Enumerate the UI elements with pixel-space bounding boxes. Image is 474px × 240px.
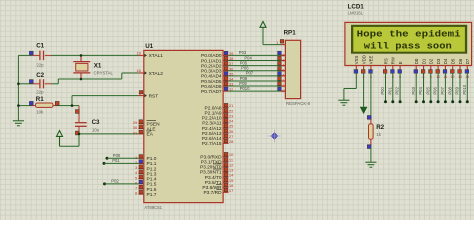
- net label P05 (vertical): [425, 86, 430, 94]
- pin P2.1/A9 (22): [205, 108, 235, 116]
- ground (left rail): [13, 121, 24, 126]
- power terminal (VDD, arrow down): [361, 107, 367, 113]
- svg-text:P07: P07: [440, 86, 445, 94]
- svg-text:P2.1/A9: P2.1/A9: [205, 111, 222, 117]
- svg-text:P3.3/INT1: P3.3/INT1: [200, 170, 222, 176]
- capacitor C3: [75, 106, 100, 135]
- svg-text:2: 2: [282, 53, 284, 57]
- pin P3.7/RD (17): [203, 188, 234, 196]
- svg-text:P04: P04: [418, 86, 423, 94]
- wire net P07 (LCD D4): [444, 73, 447, 103]
- svg-text:RW: RW: [391, 56, 396, 64]
- pin LCD RS (4): [383, 58, 388, 79]
- wire net P03 (P0.0 to RP1): [229, 54, 286, 56]
- wire net P03 (LCD D0): [415, 73, 418, 103]
- pin P0.3/AD3 (36): [201, 66, 234, 74]
- LCD LCD1 LM016L body: [345, 3, 472, 65]
- svg-text:22p: 22p: [36, 90, 44, 95]
- svg-text:D3: D3: [436, 58, 441, 64]
- pin P2.6/A14 (27): [202, 134, 234, 142]
- pin LCD D0 (7): [414, 58, 419, 79]
- pin RP1-3: [278, 56, 286, 62]
- junction node (rail-R1): [17, 104, 20, 107]
- svg-text:17: 17: [229, 188, 234, 193]
- resistor R1: [29, 96, 59, 114]
- pin EA (31): [133, 130, 154, 138]
- svg-text:19: 19: [136, 51, 141, 56]
- pin P0.6/AD6 (33): [201, 82, 234, 90]
- pin P2.3/A11 (24): [202, 119, 234, 127]
- svg-text:P09: P09: [455, 86, 460, 94]
- pin RP1-1: [276, 40, 284, 45]
- svg-text:R2: R2: [376, 124, 384, 131]
- wire VEE to R2: [370, 73, 372, 117]
- svg-text:P0.6/AD6: P0.6/AD6: [201, 84, 222, 90]
- capacitor C1: [29, 43, 44, 68]
- svg-text:28: 28: [229, 139, 234, 144]
- svg-text:P0.4/AD4: P0.4/AD4: [201, 74, 222, 80]
- net label P09 (vertical): [455, 86, 460, 94]
- svg-text:P1.4: P1.4: [147, 177, 157, 183]
- pin P2.5/A13 (26): [202, 129, 234, 137]
- wire net P02 (LCD E): [399, 73, 402, 103]
- net label P00: [113, 153, 121, 158]
- svg-text:EA: EA: [147, 132, 154, 138]
- pin RP1-6: [278, 72, 286, 78]
- wire net P09 (P0.6 to RP1): [229, 85, 286, 87]
- svg-text:1: 1: [276, 41, 278, 45]
- capacitor C2: [29, 72, 44, 95]
- pin P3.0/RXD (10): [200, 152, 234, 160]
- pin RP1-4: [278, 61, 286, 67]
- LCD screen: [352, 25, 467, 53]
- svg-text:PSEN: PSEN: [147, 121, 161, 127]
- ground rail wire (left): [17, 55, 19, 120]
- svg-text:XTAL1: XTAL1: [149, 53, 164, 59]
- svg-text:RESPACK-8: RESPACK-8: [286, 101, 311, 106]
- pin P3.1/TXD (11): [201, 157, 234, 165]
- pin LCD VEE (3): [369, 55, 374, 78]
- svg-text:P3.6/WR: P3.6/WR: [202, 185, 222, 191]
- wire VSS to ground: [344, 73, 356, 100]
- svg-text:P3.2/INT0: P3.2/INT0: [200, 165, 222, 171]
- svg-text:P3.0/RXD: P3.0/RXD: [200, 154, 222, 160]
- net label P01: [112, 158, 120, 163]
- svg-text:P2.5/A13: P2.5/A13: [202, 131, 222, 137]
- svg-text:P3.4/T0: P3.4/T0: [205, 175, 222, 181]
- svg-text:P08: P08: [447, 86, 452, 94]
- pin P2.4/A12 (25): [202, 124, 234, 132]
- wire net P010 (LCD D7): [466, 73, 469, 103]
- svg-text:P0.3/AD3: P0.3/AD3: [201, 69, 222, 75]
- svg-text:VSS: VSS: [354, 55, 359, 64]
- svg-text:VEE: VEE: [369, 55, 374, 64]
- wire R2 to ground: [370, 147, 372, 163]
- svg-text:D6: D6: [458, 58, 463, 64]
- microcontroller U1 AT89C51 body: [144, 43, 223, 210]
- power terminal VCC (top): [260, 22, 266, 28]
- svg-text:P01: P01: [387, 86, 392, 94]
- pin LCD RW (5): [391, 56, 396, 79]
- pin LCD D5 (12): [450, 58, 455, 79]
- svg-text:AT89C51: AT89C51: [144, 205, 162, 210]
- pin P1.6 (7): [135, 185, 157, 193]
- wire net P08 (LCD D5): [451, 73, 454, 103]
- net label P00 (vertical): [380, 86, 385, 94]
- pin LCD VSS (1): [354, 55, 359, 78]
- wire net P010 (P0.7 to RP1): [229, 90, 286, 92]
- wire net P04 (P0.1 to RP1): [229, 60, 286, 62]
- svg-text:X1: X1: [94, 63, 102, 70]
- pin P2.2/A10 (23): [202, 113, 234, 121]
- net label P03: [239, 50, 247, 55]
- svg-text:LM016L: LM016L: [348, 11, 364, 16]
- pin P3.6/WR (16): [202, 183, 234, 191]
- svg-text:10u: 10u: [92, 128, 100, 133]
- node crystal-bottom: [80, 78, 83, 81]
- svg-text:10k: 10k: [36, 109, 44, 114]
- svg-text:P03: P03: [411, 86, 416, 94]
- ground (LCD VSS): [338, 100, 349, 105]
- net label P04: [244, 55, 252, 60]
- svg-text:P06: P06: [433, 86, 438, 94]
- pin LCD E (6): [398, 61, 403, 79]
- wire C2 to XTAL2 net: [18, 73, 138, 84]
- svg-text:E: E: [398, 61, 403, 64]
- pin ALE (30): [133, 125, 156, 132]
- net label P07: [246, 71, 254, 76]
- wire net P05 (P0.2 to RP1): [229, 65, 286, 67]
- ground (R2): [365, 162, 376, 167]
- pin P2.0/A8 (21): [205, 103, 235, 111]
- wire net P07 (P0.4 to RP1): [229, 75, 286, 77]
- net label P09: [239, 81, 247, 86]
- svg-text:RS: RS: [383, 58, 388, 64]
- wire EA net / VCC feed: [60, 134, 139, 146]
- pin PSEN (29): [133, 120, 160, 128]
- wire net P05 (LCD D2): [429, 73, 432, 103]
- svg-text:P1.0: P1.0: [147, 156, 157, 162]
- pin RP1-5: [278, 67, 286, 73]
- svg-text:XTAL2: XTAL2: [149, 71, 164, 77]
- svg-text:D0: D0: [414, 58, 419, 64]
- svg-text:P05: P05: [425, 86, 430, 94]
- pin P0.2/AD2 (37): [201, 61, 234, 69]
- pin LCD D6 (13): [458, 58, 463, 79]
- wire net P00 (LCD RS): [384, 73, 387, 103]
- net label P010 (vertical): [462, 84, 467, 94]
- svg-text:P1.2: P1.2: [147, 166, 157, 172]
- svg-text:R1: R1: [36, 96, 44, 103]
- svg-text:P0.1/AD1: P0.1/AD1: [201, 58, 222, 64]
- net label P02 (vertical): [395, 86, 400, 94]
- svg-text:P01: P01: [112, 158, 120, 163]
- svg-text:ALE: ALE: [147, 126, 156, 132]
- junction node (rail-C2): [17, 83, 20, 86]
- pin LCD VDD (2): [361, 55, 366, 79]
- wire VDD to power: [363, 73, 365, 107]
- svg-text:RST: RST: [149, 93, 159, 99]
- svg-text:9: 9: [282, 89, 284, 93]
- pin XTAL2 (18): [136, 68, 163, 77]
- wire net P06 (LCD D3): [437, 73, 440, 103]
- svg-text:RP1: RP1: [284, 30, 297, 37]
- svg-text:P00: P00: [380, 86, 385, 94]
- net label P010: [240, 86, 250, 91]
- svg-text:D4: D4: [443, 58, 448, 64]
- pin RP1-8: [278, 82, 286, 88]
- svg-text:P3.5/T1: P3.5/T1: [205, 180, 222, 186]
- svg-text:P0.5/AD5: P0.5/AD5: [201, 79, 222, 85]
- wire net P04 (LCD D1): [422, 73, 425, 103]
- svg-text:VDD: VDD: [361, 55, 366, 64]
- net label P08 (vertical): [447, 86, 452, 94]
- svg-text:P2.0/A8: P2.0/A8: [205, 105, 222, 111]
- pin P1.5 (6): [135, 180, 157, 188]
- wire XTAL1 net (C1 to U1 XTAL1): [18, 54, 138, 56]
- svg-text:7: 7: [282, 79, 284, 83]
- svg-text:18: 18: [136, 68, 141, 73]
- pin P1.7 (8): [135, 190, 157, 198]
- svg-text:P0.7/AD7: P0.7/AD7: [201, 89, 222, 95]
- pin P0.0/AD0 (39): [201, 51, 234, 59]
- svg-text:P2.3/A11: P2.3/A11: [202, 121, 222, 127]
- net label P08: [240, 76, 248, 81]
- svg-text:D2: D2: [429, 58, 434, 64]
- wire RST net: [18, 96, 138, 106]
- pin LCD D4 (11): [443, 58, 448, 79]
- svg-text:30: 30: [133, 125, 138, 130]
- svg-text:P1.7: P1.7: [147, 192, 157, 198]
- pin P1.1 (2): [135, 160, 157, 168]
- svg-text:3: 3: [282, 58, 284, 62]
- net label P05: [240, 60, 248, 65]
- svg-text:P2.6/A14: P2.6/A14: [202, 136, 222, 142]
- pin P0.5/AD5 (34): [201, 77, 234, 85]
- wire net P09 (LCD D6): [459, 73, 462, 103]
- pin P3.5/T1 (15): [205, 178, 234, 186]
- svg-text:P0.2/AD2: P0.2/AD2: [201, 63, 222, 69]
- wire net P06 (P0.3 to RP1): [229, 70, 286, 72]
- svg-text:C3: C3: [92, 119, 100, 126]
- svg-text:22p: 22p: [36, 62, 44, 67]
- pin RP1-2: [278, 51, 286, 57]
- svg-text:D1: D1: [421, 58, 426, 64]
- wire net P00 (P1.0): [106, 157, 139, 160]
- svg-text:P1.6: P1.6: [147, 187, 157, 193]
- pin P0.1/AD1 (38): [201, 56, 234, 64]
- pin LCD D1 (8): [421, 58, 426, 79]
- svg-text:P02: P02: [111, 179, 119, 184]
- svg-text:C2: C2: [36, 72, 44, 79]
- svg-text:8: 8: [282, 84, 284, 88]
- junction node (C3-EA-VCC): [78, 133, 81, 136]
- svg-text:P02: P02: [395, 86, 400, 94]
- svg-text:P2.7/A15: P2.7/A15: [202, 141, 222, 147]
- pin P1.0 (1): [135, 155, 157, 163]
- svg-text:D5: D5: [451, 58, 456, 64]
- pin RST (9): [138, 91, 158, 100]
- svg-text:LCD1: LCD1: [348, 3, 365, 10]
- svg-text:CRYSTAL: CRYSTAL: [94, 70, 114, 75]
- wire net P08 (P0.5 to RP1): [229, 80, 286, 82]
- pin LCD D2 (9): [429, 58, 434, 79]
- svg-text:P2.2/A10: P2.2/A10: [202, 116, 222, 122]
- svg-text:will pass soon: will pass soon: [364, 41, 452, 51]
- wire net P01 (LCD RW): [391, 73, 394, 103]
- pin P0.4/AD4 (35): [201, 71, 234, 79]
- pin P2.7/A15 (28): [202, 139, 234, 147]
- crystal X1: [73, 55, 113, 79]
- pin P0.7/AD7 (32): [201, 87, 234, 95]
- svg-text:6: 6: [282, 74, 284, 78]
- pin P1.3 (4): [135, 170, 157, 178]
- svg-text:31: 31: [133, 131, 138, 136]
- net label P03 (vertical): [411, 86, 416, 94]
- svg-text:U1: U1: [145, 43, 153, 50]
- svg-text:4: 4: [282, 64, 284, 68]
- resistor R2: [367, 116, 384, 149]
- wire net P01 (P1.1): [103, 162, 139, 165]
- svg-text:P3.1/TXD: P3.1/TXD: [201, 160, 222, 166]
- svg-text:D7: D7: [465, 58, 470, 64]
- node origin marker (blue diamond): [268, 130, 280, 142]
- svg-text:Hope the epidemi: Hope the epidemi: [357, 29, 462, 39]
- net label P02: [111, 179, 119, 184]
- power terminal VCC (left): [57, 131, 63, 137]
- wire VCC to RP1 pin 1: [263, 28, 285, 45]
- pin LCD D7 (14): [465, 58, 470, 79]
- svg-text:P3.7/RD: P3.7/RD: [203, 190, 222, 196]
- svg-text:P010: P010: [240, 86, 250, 91]
- junction node (R1-RST-C3): [71, 104, 74, 107]
- svg-text:P2.4/A12: P2.4/A12: [202, 126, 222, 132]
- pin XTAL1 (19): [136, 51, 163, 60]
- pin LCD D3 (10): [436, 58, 441, 79]
- net label P06: [241, 66, 249, 71]
- resistor pack RP1 RESPACK-8 body: [284, 30, 311, 107]
- svg-text:P0.0/AD0: P0.0/AD0: [201, 53, 222, 59]
- svg-text:P1.5: P1.5: [147, 182, 157, 188]
- net label P07 (vertical): [440, 86, 445, 94]
- svg-text:5: 5: [282, 69, 284, 73]
- svg-text:P1.1: P1.1: [147, 161, 157, 167]
- svg-text:P1.3: P1.3: [147, 171, 157, 177]
- node crystal-top: [80, 54, 83, 57]
- pin RP1-7: [278, 77, 286, 83]
- pin RP1-9: [278, 87, 286, 93]
- net label P01 (vertical): [387, 86, 392, 94]
- pin P1.2 (3): [135, 165, 157, 173]
- pin P3.4/T0 (14): [205, 173, 234, 181]
- net label P06 (vertical): [433, 86, 438, 94]
- net label P04 (vertical): [418, 86, 423, 94]
- wire net P02 (P1.5): [103, 182, 138, 185]
- pin P3.3/INT1 (13): [200, 168, 234, 176]
- pin P1.4 (5): [135, 175, 157, 183]
- svg-text:P010: P010: [462, 84, 467, 94]
- svg-text:C1: C1: [36, 43, 44, 50]
- pin P3.2/INT0 (12): [200, 162, 234, 170]
